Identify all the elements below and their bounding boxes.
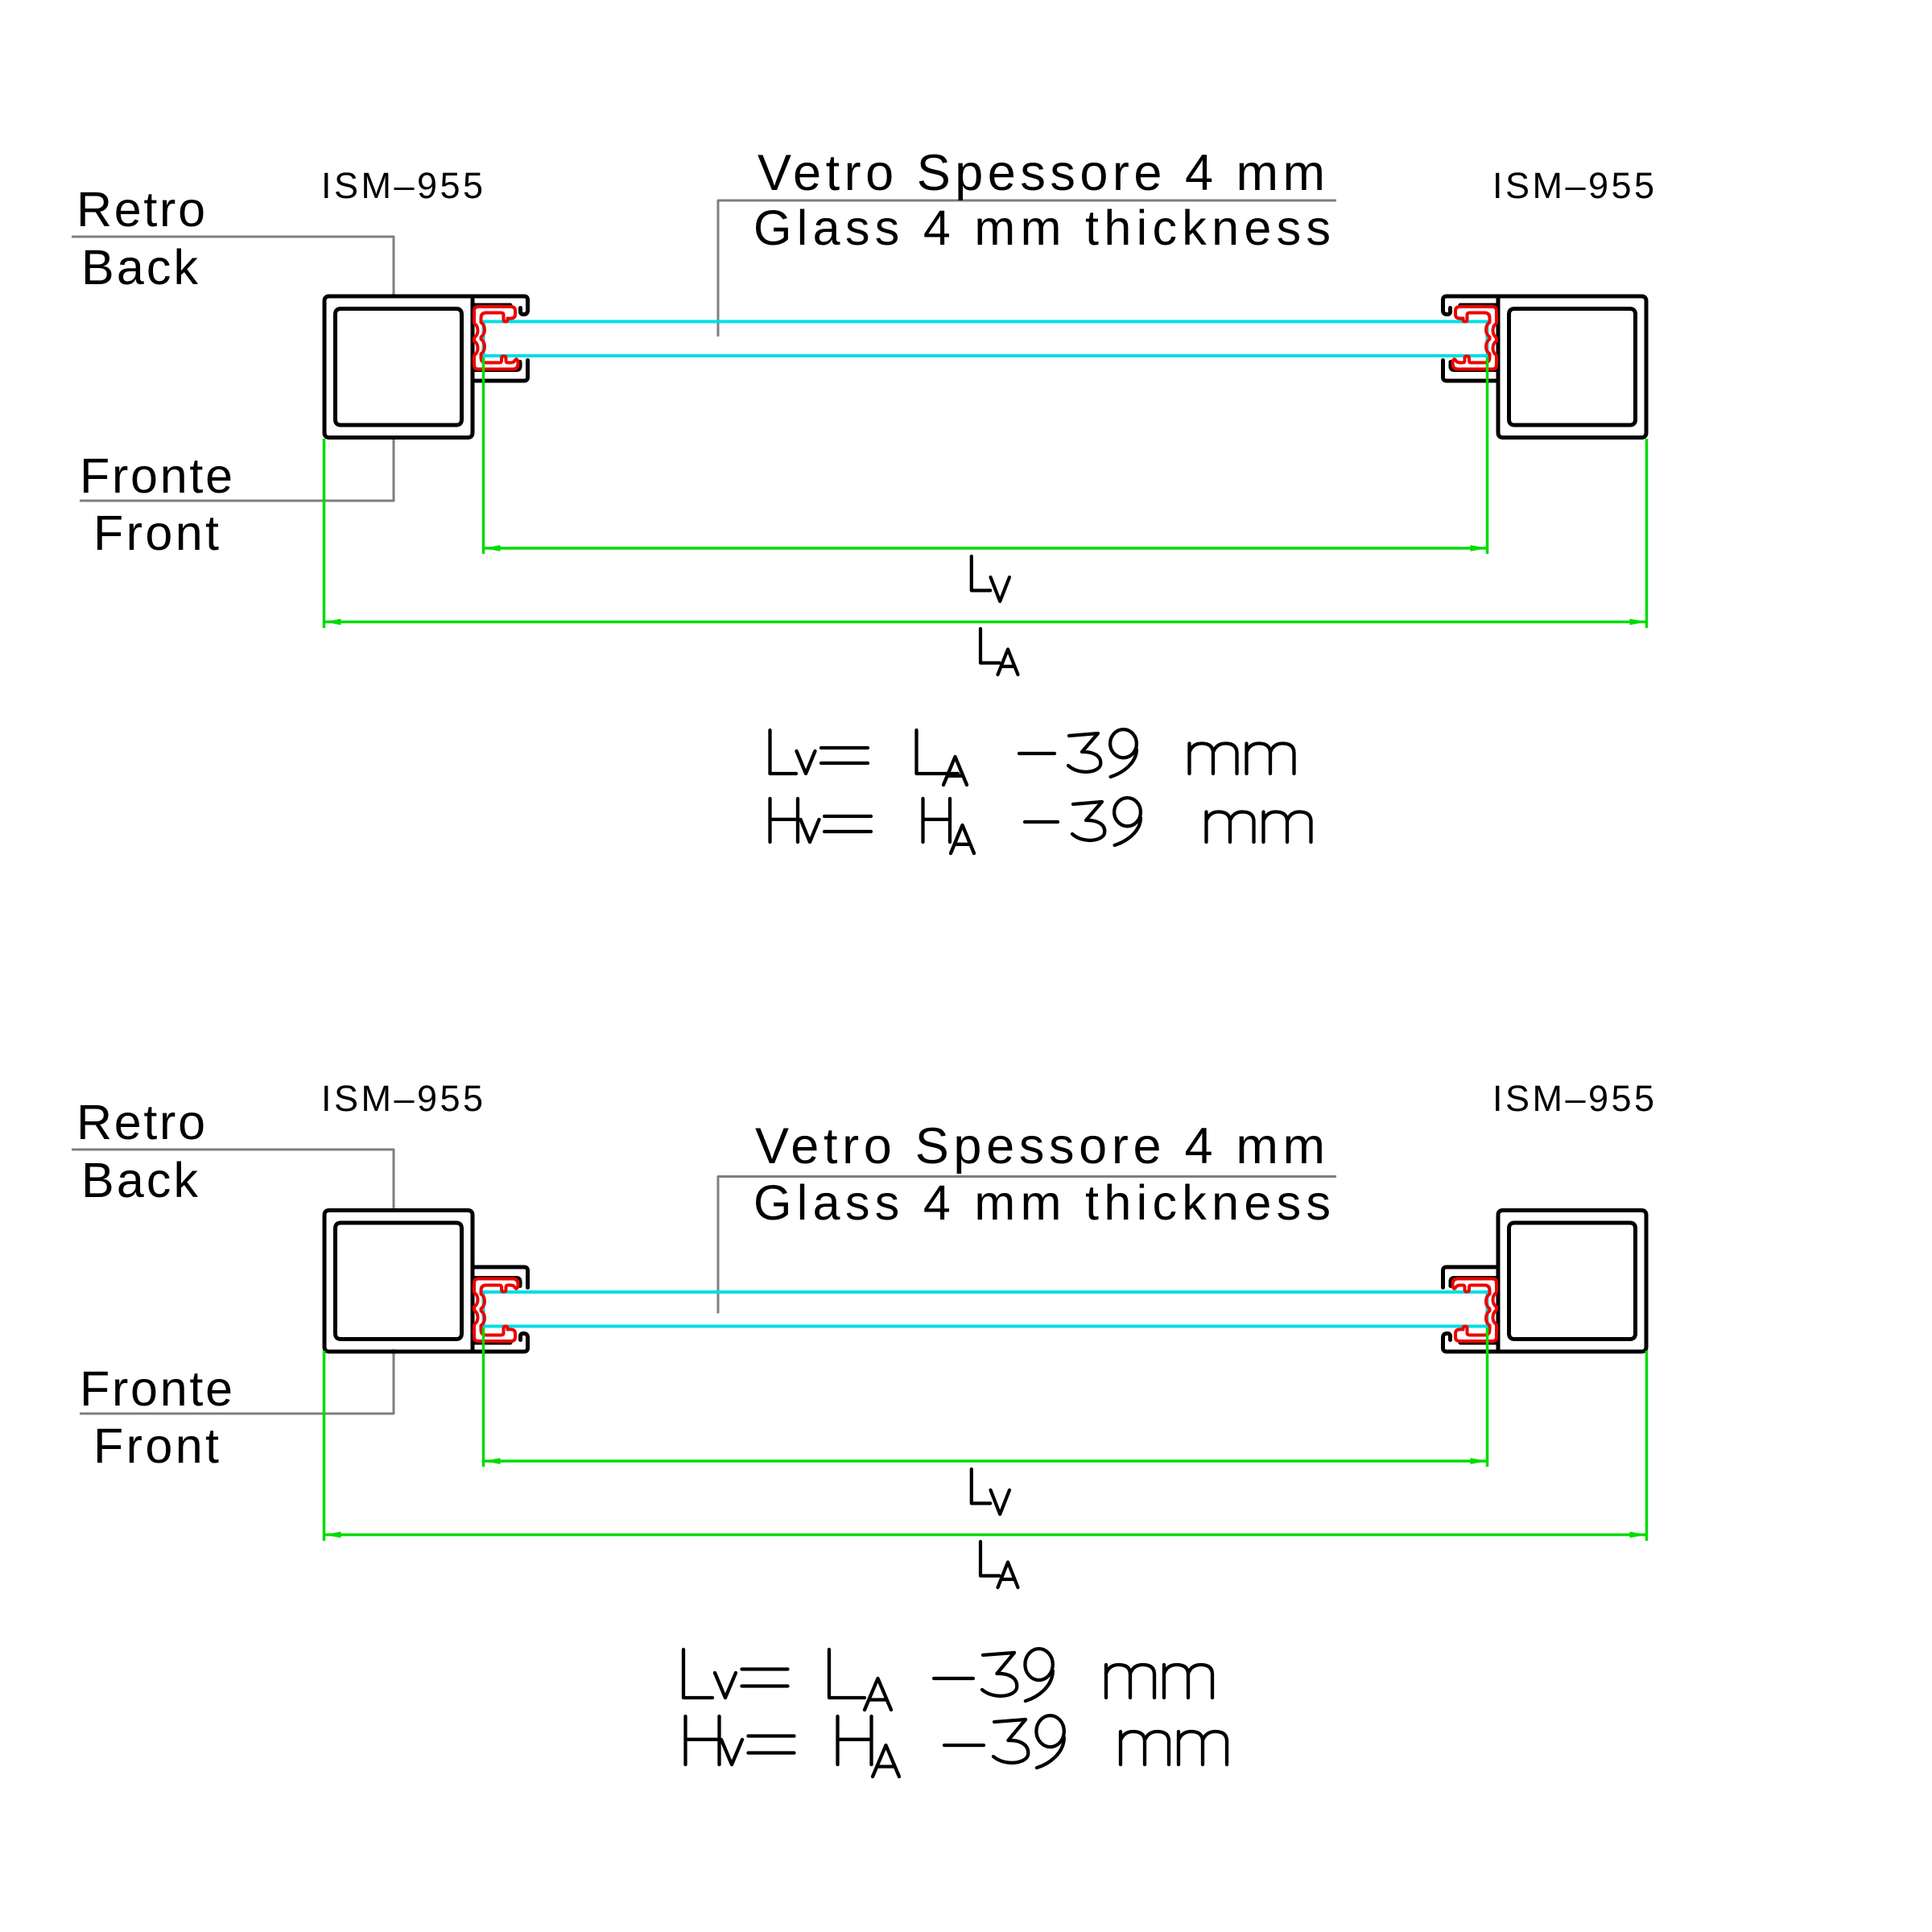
svg-text:ISM–955: ISM–955 bbox=[321, 165, 483, 206]
svg-text:Back: Back bbox=[81, 240, 199, 295]
svg-text:ISM–955: ISM–955 bbox=[321, 1078, 483, 1119]
svg-text:Fronte: Fronte bbox=[80, 448, 233, 503]
svg-text:Fronte: Fronte bbox=[80, 1361, 233, 1416]
svg-text:Back: Back bbox=[81, 1153, 199, 1207]
svg-text:Glass 4 mm thickness: Glass 4 mm thickness bbox=[753, 200, 1331, 255]
svg-text:ISM–955: ISM–955 bbox=[1492, 165, 1654, 206]
svg-text:Retro: Retro bbox=[76, 1095, 205, 1150]
svg-text:Front: Front bbox=[93, 1418, 219, 1473]
svg-text:ISM–955: ISM–955 bbox=[1492, 1078, 1654, 1119]
svg-text:Retro: Retro bbox=[76, 182, 205, 237]
svg-text:Front: Front bbox=[93, 506, 219, 560]
svg-text:Glass 4 mm thickness: Glass 4 mm thickness bbox=[753, 1175, 1331, 1230]
